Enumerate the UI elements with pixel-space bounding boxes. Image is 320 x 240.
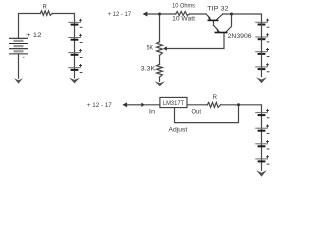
- wire: LM317 Adjust pin feedback loop: [175, 105, 239, 123]
- battery stack BT1 cell 3 polarity labels: [79, 49, 82, 52]
- battery stack BT2 cell 2 polarity labels: [266, 33, 269, 36]
- resistor 3.3K zigzag: [157, 64, 163, 77]
- svg-text:TIP 32: TIP 32: [207, 6, 229, 13]
- resistor 10 Ohm 10 Watt zigzag: [176, 12, 190, 16]
- transistor Q2 2N3906 base bar: [215, 32, 228, 34]
- svg-text:LM317T: LM317T: [163, 101, 185, 107]
- svg-text:Adjust: Adjust: [169, 127, 188, 134]
- supply arrow (top circuit, points left): [143, 12, 148, 17]
- wire: between supply arrows: [127, 104, 141, 106]
- transistor Q1 TIP 32 base bar: [208, 19, 219, 21]
- battery stack BT2 cell 1: [255, 21, 268, 23]
- node C junction dot (R / battery / adjust): [237, 103, 240, 106]
- regulator U1 LM317 box: [160, 97, 187, 107]
- supply arrow (bottom circuit, points left): [122, 102, 127, 107]
- battery stack BT1 cell 3: [68, 52, 81, 54]
- wire: battery B1 top to resistor R: [19, 14, 41, 39]
- wire: 3.3K to ground: [159, 77, 161, 81]
- svg-text:R: R: [213, 95, 218, 101]
- transistor Q1 TIP 32 emitter arrowhead: [208, 16, 212, 21]
- battery stack BT3 cell 4 polarity labels: [266, 155, 269, 158]
- battery stack BT3 cell 2 polarity labels: [266, 125, 269, 128]
- wire: 5K pot to 3.3K resistor: [159, 55, 161, 64]
- svg-text:+ 12 - 17: + 12 - 17: [108, 11, 132, 18]
- battery B1 +12 source: [9, 38, 28, 54]
- wire: BT2 spine: [261, 22, 263, 77]
- svg-text:2N3906: 2N3906: [228, 33, 252, 40]
- battery stack BT1 cell 1: [68, 21, 81, 23]
- ground (3.3K): [155, 81, 166, 86]
- battery stack BT2 cell 4: [255, 66, 268, 68]
- ground (BT3): [256, 170, 267, 176]
- wire: TIP32 collector to battery stack BT2: [223, 14, 262, 22]
- battery stack BT1 cell 1 polarity labels: [79, 19, 82, 22]
- wire: right supply arrow to LM317 In pin: [145, 104, 160, 106]
- svg-text:10 Ohms: 10 Ohms: [172, 3, 195, 9]
- svg-text:Out: Out: [192, 109, 202, 115]
- svg-text:+ 12 - 17: + 12 - 17: [87, 103, 113, 109]
- transistor Q2 2N3906 emitter lead: [214, 25, 218, 29]
- node A junction dot: [158, 13, 161, 16]
- battery stack BT3 cell 1: [255, 112, 268, 114]
- transistor Q2 2N3906 collector lead: [226, 14, 232, 33]
- transistor Q1 TIP 32 collector lead: [216, 14, 223, 20]
- wire: BT1 spine: [74, 22, 76, 77]
- wire: BT3 spine: [261, 113, 263, 171]
- supply arrow (bottom circuit, points right): [141, 103, 145, 107]
- wire: node A down to 5K pot: [159, 14, 161, 42]
- battery stack BT2 cell 1 polarity labels: [266, 19, 269, 22]
- battery stack BT3 cell 3 polarity labels: [266, 140, 269, 143]
- svg-text:+ 12: + 12: [26, 32, 42, 39]
- potentiometer 5K zigzag: [157, 42, 163, 56]
- svg-text:R: R: [43, 4, 48, 10]
- svg-text:10 Watt: 10 Watt: [172, 17, 195, 23]
- wire: 10 Ohm resistor to TIP32 emitter: [190, 13, 206, 15]
- battery stack BT2 cell 3: [255, 51, 268, 53]
- wire: B1 bottom to ground: [18, 54, 20, 78]
- battery stack BT3 cell 3: [255, 143, 268, 145]
- ground (BT1): [69, 78, 80, 84]
- battery stack BT1 cell 4 polarity labels: [79, 64, 82, 67]
- resistor R (top-left circuit): [40, 11, 52, 16]
- wire: resistor R to battery stack BT1: [52, 14, 74, 23]
- svg-text:5K: 5K: [147, 44, 154, 51]
- battery stack BT2 cell 3 polarity labels: [266, 48, 269, 51]
- battery stack BT1 cell 2 polarity labels: [79, 34, 82, 37]
- svg-text:3.3K: 3.3K: [141, 66, 156, 73]
- battery B1 minus mark: [23, 56, 25, 58]
- battery stack BT3 cell 4: [255, 158, 268, 160]
- wire: resistor R to battery stack BT3: [221, 105, 262, 113]
- transistor Q1 TIP 32 base lead: [213, 20, 215, 25]
- battery stack BT2 cell 4 polarity labels: [266, 63, 269, 66]
- wire: supply arrow to node A: [147, 13, 176, 15]
- svg-text:In: In: [149, 109, 155, 115]
- potentiometer 5K wiper arrow: [163, 46, 167, 50]
- ground (B1): [14, 78, 23, 83]
- transistor Q2 2N3906 base lead to pot wiper: [167, 33, 224, 49]
- node B junction dot (collectors to battery): [230, 13, 233, 16]
- battery stack BT1 cell 4: [68, 67, 81, 69]
- ground (BT2): [256, 77, 267, 83]
- transistor Q1 TIP 32 emitter lead: [206, 14, 210, 18]
- battery stack BT1 cell 2: [68, 37, 81, 39]
- transistor Q2 2N3906 emitter arrowhead: [216, 29, 220, 34]
- battery stack BT3 cell 1 polarity labels: [266, 109, 269, 112]
- battery stack BT2 cell 2: [255, 36, 268, 38]
- battery stack BT3 cell 2: [255, 127, 268, 129]
- wire: LM317 Out pin to resistor R: [187, 104, 207, 106]
- resistor R zigzag (bottom circuit): [207, 102, 220, 107]
